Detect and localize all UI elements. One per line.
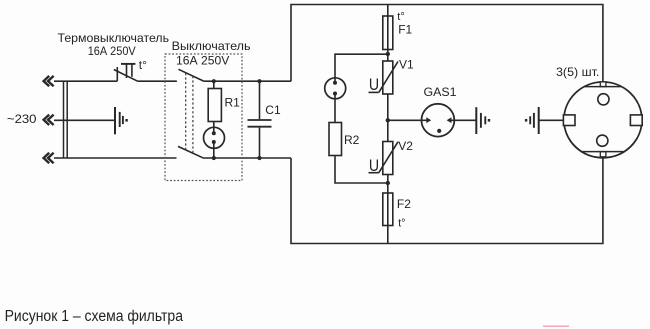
svg-text:3(5) шт.: 3(5) шт. [556, 65, 599, 79]
svg-text:R1: R1 [225, 95, 241, 109]
svg-text:C1: C1 [265, 103, 281, 117]
svg-text:U: U [369, 157, 379, 175]
svg-text:V1: V1 [399, 58, 414, 72]
svg-text:V2: V2 [398, 139, 413, 153]
svg-text:Выключатель: Выключатель [172, 39, 251, 53]
svg-text:Рисунок 1 – схема фильтра: Рисунок 1 – схема фильтра [5, 308, 184, 325]
svg-text:R2: R2 [344, 133, 360, 147]
svg-text:t°: t° [397, 11, 404, 23]
svg-text:F2: F2 [397, 197, 411, 211]
svg-text:t°: t° [398, 217, 405, 229]
svg-text:~230: ~230 [7, 112, 37, 126]
svg-text:16А 250V: 16А 250V [176, 54, 229, 68]
svg-text:F1: F1 [398, 23, 412, 37]
svg-text:16А 250V: 16А 250V [88, 44, 136, 58]
svg-text:GAS1: GAS1 [424, 85, 457, 99]
svg-text:U: U [369, 76, 379, 94]
svg-text:t°: t° [139, 58, 147, 72]
